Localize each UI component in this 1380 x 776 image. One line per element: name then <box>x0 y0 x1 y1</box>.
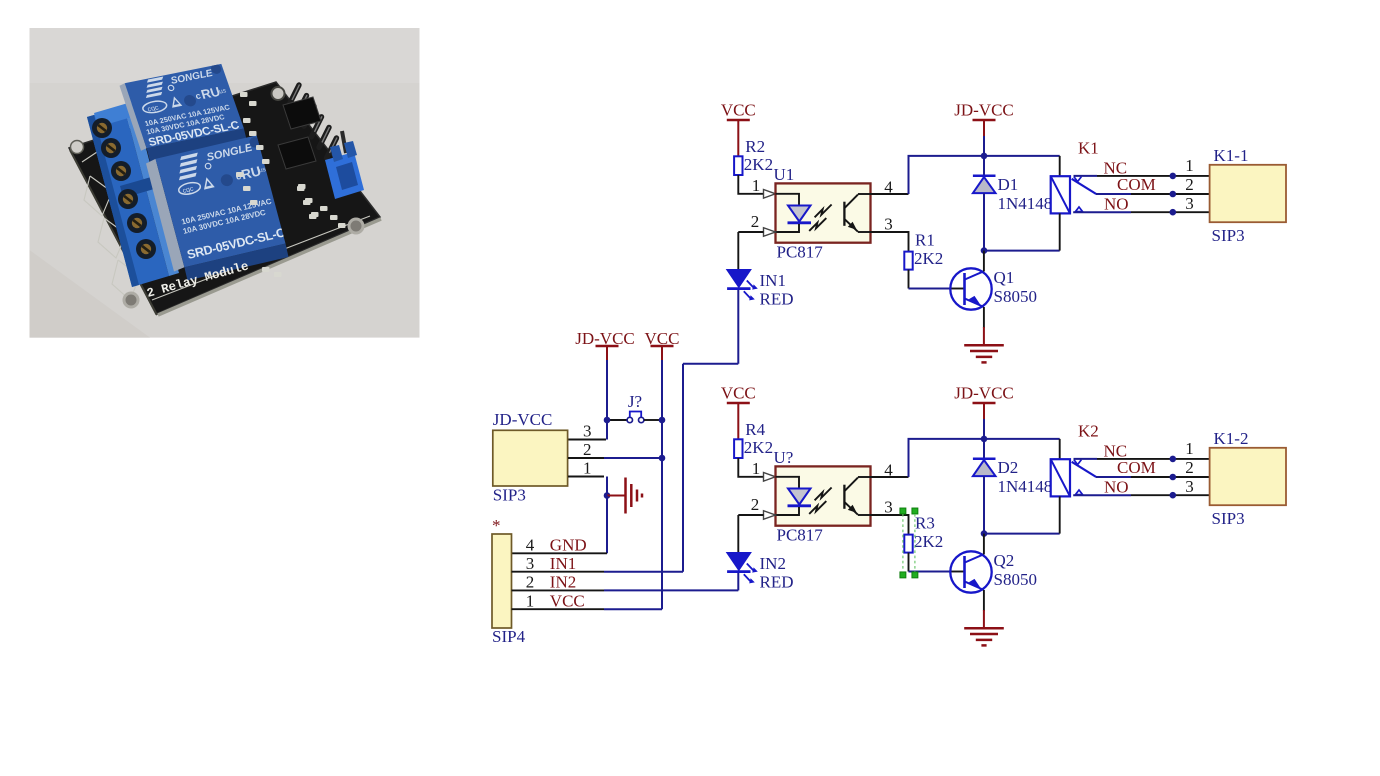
power VCC (channel 2) <box>721 384 756 440</box>
opto light arrows <box>809 488 831 514</box>
svg-text:SIP4: SIP4 <box>492 627 526 646</box>
optocoupler U1 PC817 <box>774 165 871 262</box>
svg-text:RED: RED <box>760 573 794 592</box>
svg-text:1: 1 <box>752 459 761 478</box>
pin 1 <box>752 176 776 198</box>
svg-text:GND: GND <box>550 536 587 555</box>
junction <box>659 417 666 424</box>
power JD-VCC (channel 2) <box>954 384 1014 439</box>
diode D2 1N4148 <box>973 439 1052 534</box>
svg-text:4: 4 <box>526 536 535 555</box>
ground (left, rotated) <box>607 478 642 514</box>
wire bottom rail <box>984 533 1060 535</box>
svg-text:K1: K1 <box>1078 139 1099 158</box>
jumper J? <box>610 392 659 423</box>
svg-text:1: 1 <box>583 459 592 478</box>
wire SIP3 pin1 to ground <box>568 477 607 496</box>
relay 2 SONGLE SRD-05VDC-SL-C <box>146 135 289 280</box>
connector SIP4 <box>492 516 526 646</box>
svg-text:K1-2: K1-2 <box>1214 429 1249 448</box>
svg-text:COM: COM <box>1117 458 1156 477</box>
svg-text:R2: R2 <box>745 137 765 156</box>
wire GND net <box>512 496 608 554</box>
svg-text:VCC: VCC <box>721 384 756 403</box>
black relay driver blocks <box>278 97 321 169</box>
wire <box>738 175 763 194</box>
svg-text:JD-VCC: JD-VCC <box>954 101 1014 120</box>
opto internal LED <box>776 194 812 232</box>
wire SIP3 pin2 to VCC net <box>568 457 662 459</box>
svg-text:1: 1 <box>1185 156 1194 175</box>
wire <box>738 458 763 477</box>
svg-text:R1: R1 <box>915 231 935 250</box>
svg-text:PC817: PC817 <box>777 526 824 545</box>
ground (channel 1) <box>964 345 1004 362</box>
svg-text:J?: J? <box>628 392 642 411</box>
wire JD-VCC net to SIP3 pin3 <box>568 420 607 440</box>
relay contact NC <box>1074 442 1210 465</box>
diode D1 1N4148 <box>973 156 1052 251</box>
junction <box>604 417 611 424</box>
svg-text:VCC: VCC <box>550 591 585 610</box>
svg-text:3: 3 <box>884 498 893 517</box>
connector JD-VCC SIP3 <box>493 410 568 505</box>
power VCC (channel 1) <box>721 101 756 157</box>
svg-text:1: 1 <box>752 176 761 195</box>
header pins <box>289 85 337 158</box>
connector K1-1 SIP3 <box>1210 146 1286 245</box>
wire to base <box>909 571 965 573</box>
svg-text:*: * <box>492 516 501 535</box>
resistor R1 2K2 <box>871 231 944 289</box>
resistor R3 2K2 <box>871 514 944 572</box>
svg-text:S8050: S8050 <box>994 287 1037 306</box>
svg-text:3: 3 <box>526 554 535 573</box>
LED IN1 RED <box>727 232 793 309</box>
wire bottom rail <box>984 250 1060 252</box>
svg-text:SIP3: SIP3 <box>493 486 526 505</box>
svg-text:D1: D1 <box>998 175 1019 194</box>
wire pin4 to rail <box>871 439 1060 477</box>
opto light arrows <box>809 205 831 231</box>
svg-text:IN2: IN2 <box>760 554 786 573</box>
power VCC (left) <box>645 329 680 609</box>
svg-text:U?: U? <box>774 448 794 467</box>
svg-text:IN1: IN1 <box>760 271 786 290</box>
svg-text:K1-1: K1-1 <box>1214 146 1249 165</box>
power JD-VCC (left) <box>575 329 635 420</box>
svg-text:R4: R4 <box>745 420 765 439</box>
junction <box>981 153 988 160</box>
relay contact NO <box>1073 478 1209 497</box>
svg-text:2: 2 <box>1185 175 1194 194</box>
wire IN1 net <box>512 290 739 572</box>
svg-text:1: 1 <box>1185 439 1194 458</box>
relay contact COM arm <box>1072 175 1210 194</box>
ground (channel 2) <box>964 628 1004 645</box>
wire emitter to ground <box>983 307 985 345</box>
svg-text:Q2: Q2 <box>994 551 1015 570</box>
transistor Q1 S8050 <box>950 251 1037 310</box>
svg-text:NO: NO <box>1104 195 1129 214</box>
svg-text:2K2: 2K2 <box>744 155 773 174</box>
LED light arrows <box>744 281 758 301</box>
pin 2 <box>751 495 776 519</box>
PCB board <box>69 82 381 315</box>
selection handles on R3 <box>900 508 918 578</box>
relay contact NO <box>1073 195 1209 214</box>
LED IN2 RED <box>727 515 793 592</box>
relay coil K2 <box>1051 422 1099 534</box>
opto phototransistor <box>844 477 870 515</box>
SIP3 pin numbers <box>583 422 592 478</box>
contact row pin numbers <box>1185 439 1194 496</box>
junction <box>604 492 611 499</box>
svg-text:RED: RED <box>760 290 794 309</box>
svg-text:1N4148: 1N4148 <box>998 194 1053 213</box>
transistor Q2 S8050 <box>950 534 1037 593</box>
svg-text:2: 2 <box>751 212 760 231</box>
svg-text:S8050: S8050 <box>994 570 1037 589</box>
svg-text:COM: COM <box>1117 175 1156 194</box>
svg-text:U1: U1 <box>774 165 795 184</box>
pin 1 <box>752 459 776 481</box>
svg-text:3: 3 <box>583 422 592 441</box>
junction <box>981 530 988 537</box>
svg-text:SIP3: SIP3 <box>1212 226 1245 245</box>
blue jumper <box>325 131 364 199</box>
contact row pin numbers <box>1185 156 1194 213</box>
svg-text:1N4148: 1N4148 <box>998 477 1053 496</box>
connector K1-2 SIP3 <box>1210 429 1286 528</box>
svg-text:JD-VCC: JD-VCC <box>493 410 553 429</box>
resistor R2 2K2 <box>734 137 773 175</box>
svg-text:NO: NO <box>1104 478 1129 497</box>
solder pads <box>236 92 346 277</box>
svg-text:2K2: 2K2 <box>914 249 943 268</box>
svg-text:2: 2 <box>1185 458 1194 477</box>
svg-text:1: 1 <box>526 591 535 610</box>
svg-text:2: 2 <box>526 573 535 592</box>
resistor R4 2K2 <box>734 420 773 458</box>
svg-text:Q1: Q1 <box>994 268 1015 287</box>
net labels GND IN1 IN2 VCC <box>550 536 587 611</box>
junction <box>981 247 988 254</box>
optocoupler U? PC817 <box>774 448 871 545</box>
svg-text:2: 2 <box>583 440 592 459</box>
svg-text:SIP3: SIP3 <box>1212 509 1245 528</box>
svg-text:PC817: PC817 <box>777 243 824 262</box>
svg-text:K2: K2 <box>1078 422 1099 441</box>
wire pin4 to rail <box>871 156 1060 194</box>
SIP4 pin numbers <box>526 536 535 611</box>
opto phototransistor <box>844 194 870 232</box>
svg-text:3: 3 <box>884 215 893 234</box>
pin 2 <box>751 212 776 236</box>
wire IN2 net <box>512 573 739 591</box>
photo background <box>30 28 420 338</box>
svg-text:2K2: 2K2 <box>744 438 773 457</box>
svg-text:IN2: IN2 <box>550 573 576 592</box>
svg-text:IN1: IN1 <box>550 554 576 573</box>
mounting holes <box>71 87 364 307</box>
wire to base <box>909 288 965 290</box>
opto internal LED <box>776 477 812 515</box>
power JD-VCC (channel 1) <box>954 101 1014 156</box>
svg-text:R3: R3 <box>915 514 935 533</box>
svg-text:3: 3 <box>1185 194 1194 213</box>
screw terminal block <box>87 103 179 287</box>
svg-text:2K2: 2K2 <box>914 532 943 551</box>
svg-text:VCC: VCC <box>721 101 756 120</box>
junction <box>981 436 988 443</box>
junction dots on contact rows <box>1170 173 1177 216</box>
svg-text:D2: D2 <box>998 458 1019 477</box>
terminal screws <box>92 118 156 259</box>
junction dots on contact rows <box>1170 456 1177 499</box>
silkscreen frame and markings <box>82 150 370 300</box>
wire emitter to ground <box>983 590 985 628</box>
wire VCC net to SIP4 pin1 <box>512 608 663 610</box>
relay contact NC <box>1074 159 1210 182</box>
relay contact COM arm <box>1072 458 1210 477</box>
LED light arrows <box>744 564 758 584</box>
svg-text:2: 2 <box>751 495 760 514</box>
junction <box>659 455 666 462</box>
svg-text:3: 3 <box>1185 477 1194 496</box>
relay coil K1 <box>1051 139 1099 251</box>
svg-text:JD-VCC: JD-VCC <box>954 384 1014 403</box>
